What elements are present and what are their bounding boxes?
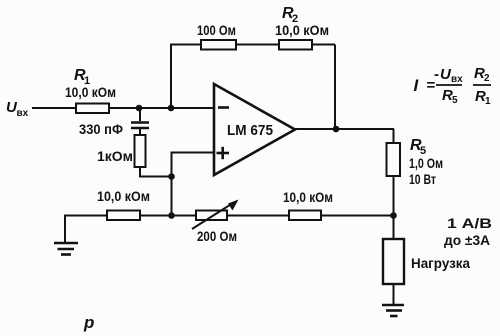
node junction capacitor tap xyxy=(136,105,143,112)
svg-text:5: 5 xyxy=(452,95,458,106)
label R1 xyxy=(74,67,90,87)
node junction plus input xyxy=(168,173,175,180)
wire between 100 Om and R2 xyxy=(236,44,279,46)
wire feedback top left segment xyxy=(170,44,201,46)
wire feedback vertical right xyxy=(334,45,336,130)
node junction output xyxy=(333,126,340,133)
wire feedback vertical left xyxy=(170,45,172,109)
wire 1kOm bottom to plus node xyxy=(140,167,171,177)
label R5 xyxy=(410,137,426,157)
wire output down to R5 xyxy=(393,129,395,143)
trimmer 200 Om arrow xyxy=(192,200,239,230)
ground right symbol xyxy=(382,305,404,316)
node junction sense xyxy=(390,212,397,219)
wire R1 to inverting input xyxy=(109,107,214,109)
svg-text:10,0 кОм: 10,0 кОм xyxy=(283,189,333,205)
wire bottom-right resistor to sense node xyxy=(321,215,394,217)
wire load to ground xyxy=(393,284,395,305)
wire plus node vertical xyxy=(171,153,173,216)
resistor R5 body xyxy=(387,143,401,176)
svg-text:330 пФ: 330 пФ xyxy=(79,121,123,137)
wire cap lead down xyxy=(139,108,141,121)
resistor R2 body xyxy=(279,40,312,50)
resistor 1kOm body xyxy=(135,135,146,167)
node junction bottom plus xyxy=(168,212,175,219)
formula I = -Uvx/R5 * R2/R1 xyxy=(414,65,492,107)
wire input from Uvx to R1 xyxy=(32,107,76,109)
svg-text:-: - xyxy=(434,66,439,83)
load box Nagruzka xyxy=(383,239,404,284)
svg-text:2: 2 xyxy=(484,73,490,84)
svg-text:200 Ом: 200 Ом xyxy=(197,228,237,244)
svg-text:1 А/В: 1 А/В xyxy=(447,215,492,231)
svg-text:100 Ом: 100 Ом xyxy=(197,22,236,38)
wire cap to 1kOm resistor xyxy=(139,129,141,135)
svg-text:до ±3А: до ±3А xyxy=(444,232,490,248)
svg-text:10,0 кОм: 10,0 кОм xyxy=(275,22,329,38)
ground left symbol xyxy=(54,243,78,255)
svg-text:10,0 кОм: 10,0 кОм xyxy=(97,188,150,204)
label R2 xyxy=(282,5,298,25)
resistor R1 10,0 kOm body xyxy=(76,104,109,114)
svg-text:вх: вх xyxy=(451,74,463,85)
wire trimmer to bottom-right resistor xyxy=(227,215,289,217)
wire feedback top right segment xyxy=(312,44,335,46)
capacitor 330pF xyxy=(131,123,149,129)
svg-text:1кОм: 1кОм xyxy=(97,148,133,164)
op-amp U1 LM675 xyxy=(214,84,295,175)
svg-text:10 Вт: 10 Вт xyxy=(409,171,436,187)
svg-text:LM 675: LM 675 xyxy=(227,122,273,139)
node Uin input label xyxy=(6,99,29,119)
wire sense node to load xyxy=(393,216,395,240)
resistor 100 Om body xyxy=(201,40,236,50)
svg-text:вх: вх xyxy=(17,108,29,119)
wire ground left up xyxy=(65,216,107,244)
wire R5 to sense node xyxy=(393,176,395,216)
resistor 10,0 kOm bottom-left body xyxy=(107,211,140,221)
svg-text:1,0 Ом: 1,0 Ом xyxy=(409,155,443,171)
svg-text:1: 1 xyxy=(485,96,491,107)
svg-text:Нагрузка: Нагрузка xyxy=(411,255,470,271)
resistor 10,0 kOm bottom-right body xyxy=(289,211,321,221)
node junction feedback tap xyxy=(168,105,175,112)
wire bottom-left resistor to plus node xyxy=(140,215,196,217)
wire output xyxy=(295,128,394,130)
svg-text:10,0 кОм: 10,0 кОм xyxy=(65,84,116,100)
wire to non-inverting input xyxy=(171,152,215,154)
trimmer 200 Om body xyxy=(196,211,227,221)
svg-text:p: p xyxy=(83,313,94,332)
